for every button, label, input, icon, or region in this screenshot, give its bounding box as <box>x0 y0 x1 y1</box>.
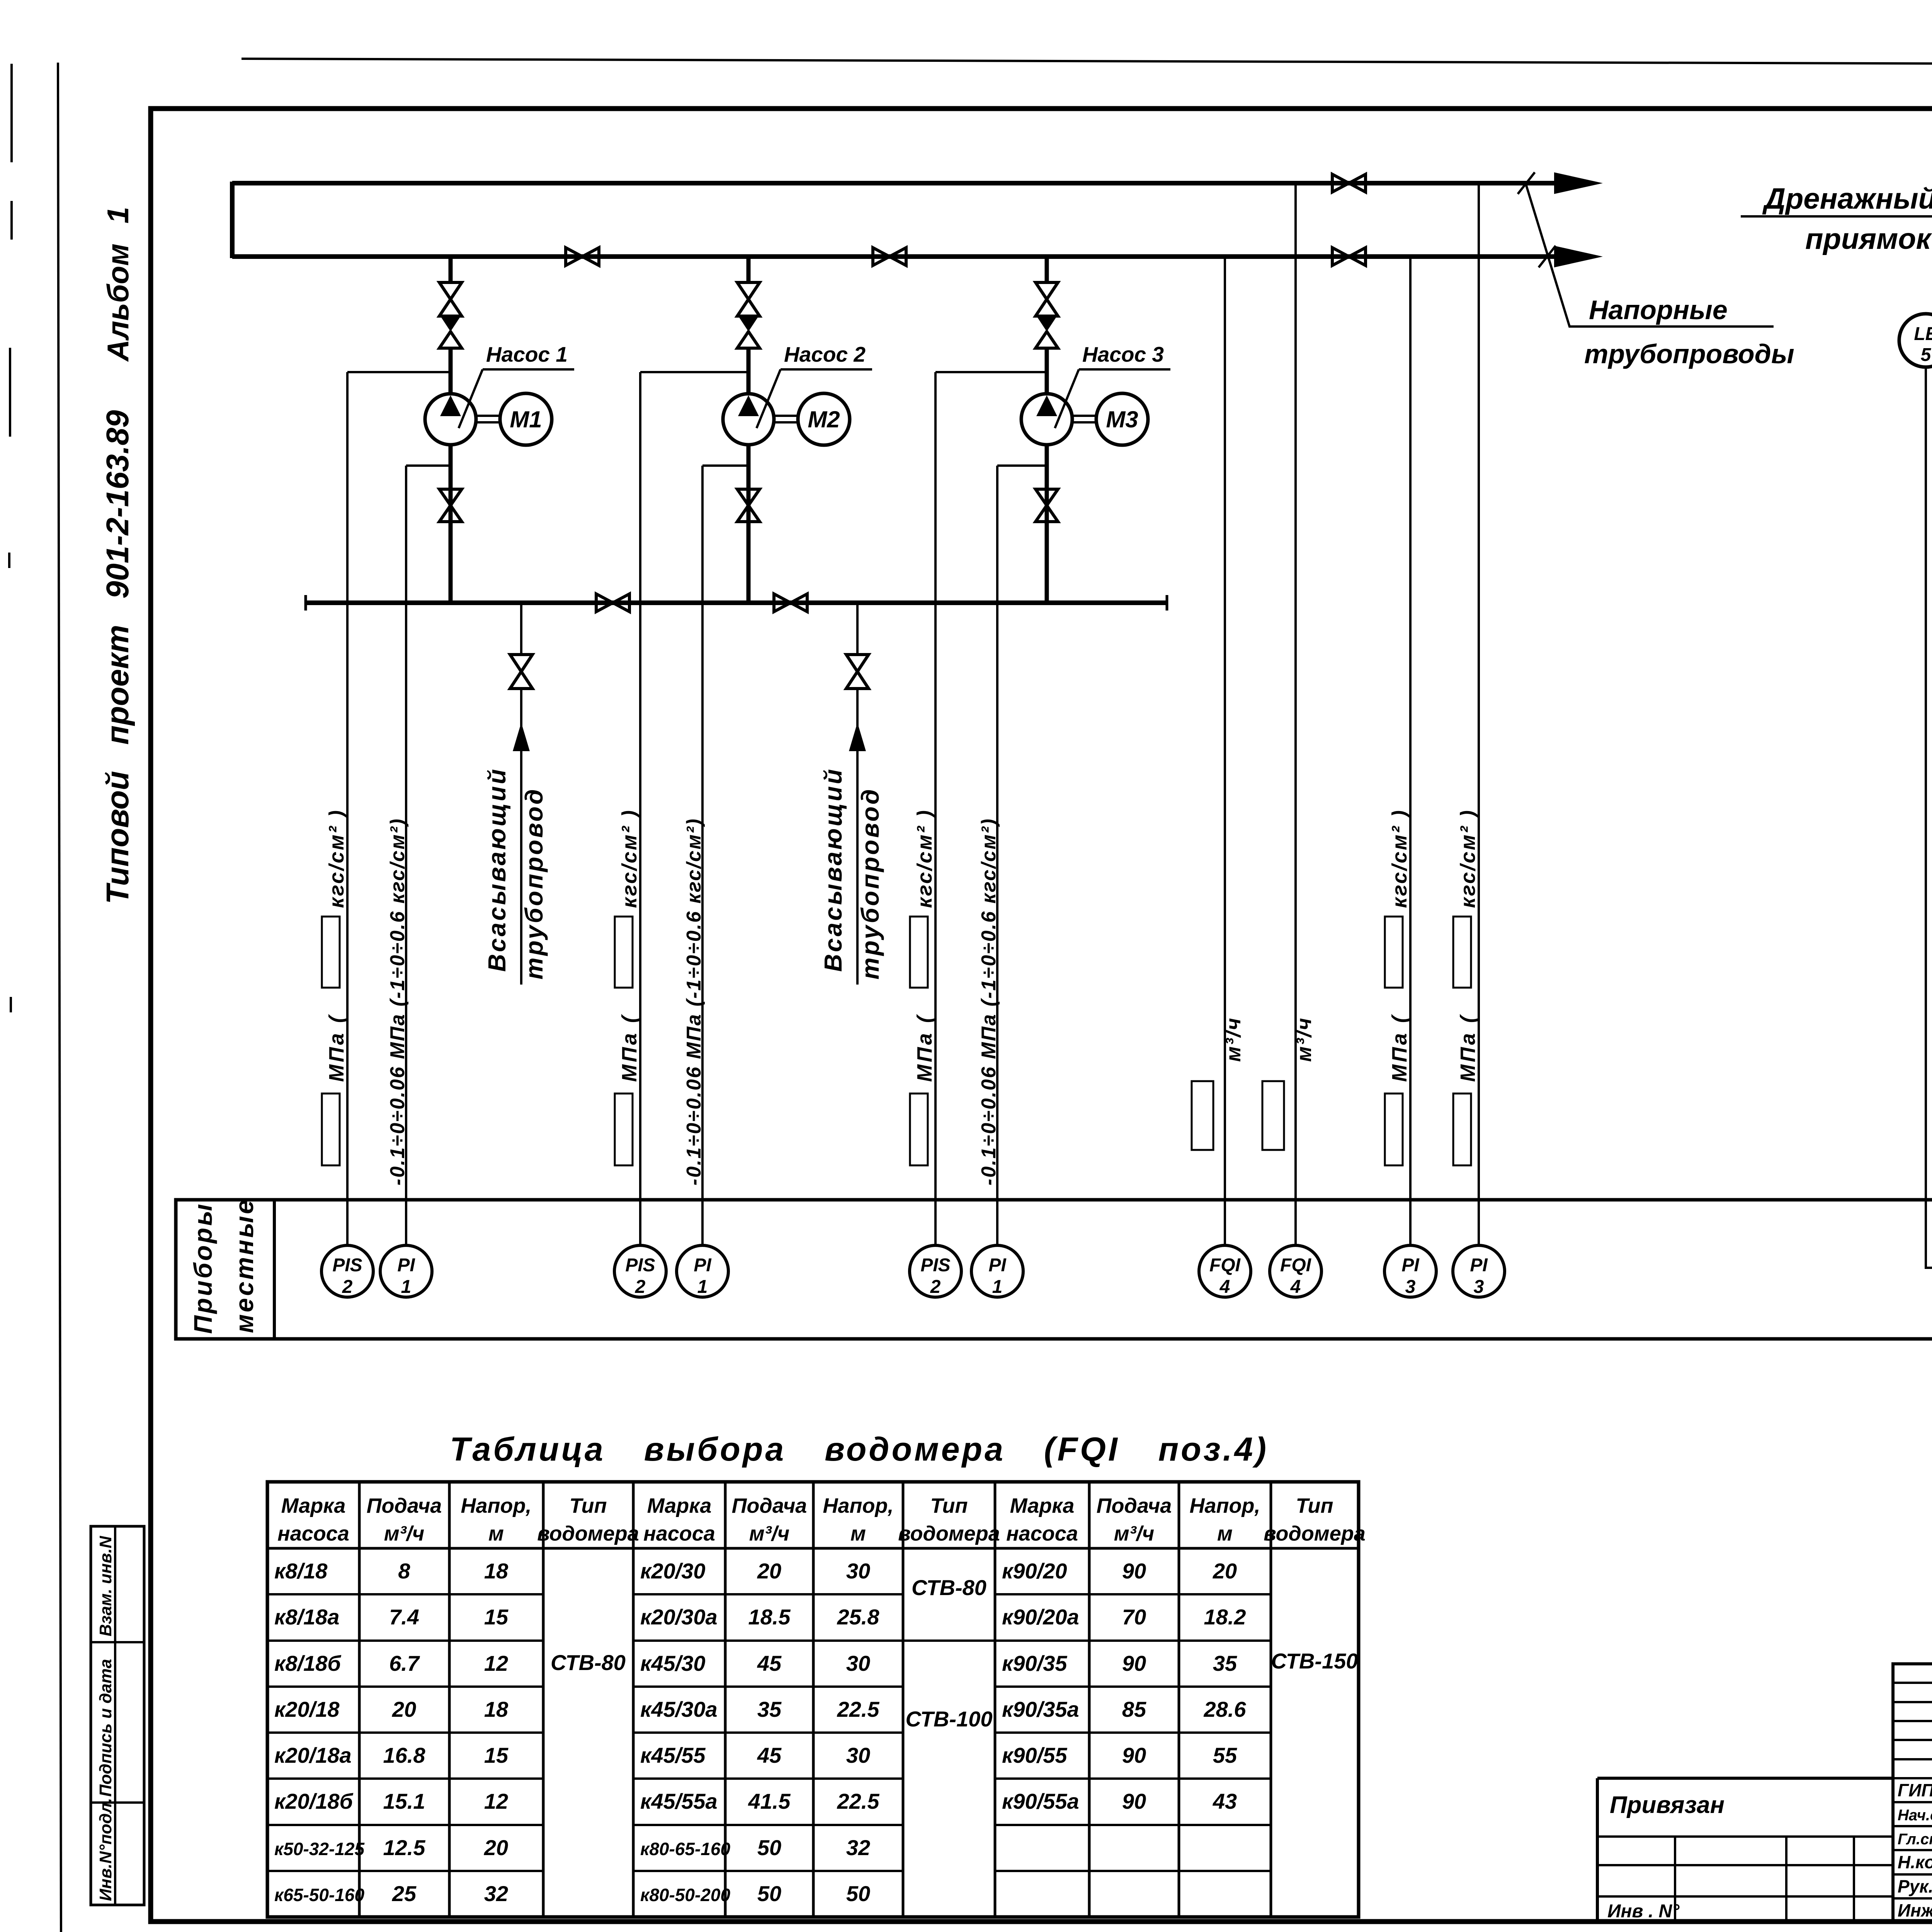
svg-text:СТВ-100: СТВ-100 <box>905 1707 992 1731</box>
gate valve on pump 3 discharge <box>1036 282 1058 316</box>
svg-text:ГИП: ГИП <box>1898 1780 1932 1800</box>
svg-text:к20/18б: к20/18б <box>274 1789 354 1813</box>
table row lines <box>267 1594 1271 1871</box>
suction pressure tap pump 2 <box>702 464 748 467</box>
svg-text:12: 12 <box>484 1789 508 1813</box>
svg-text:5: 5 <box>1921 345 1932 365</box>
line to FQI lower pipe <box>1224 257 1226 1246</box>
svg-text:СТВ-80: СТВ-80 <box>551 1650 626 1675</box>
instrument FQI-4 at x=3170 <box>1199 1245 1251 1297</box>
svg-text:32: 32 <box>484 1881 508 1906</box>
left margin stamp boxes <box>91 1526 144 1905</box>
pump 1 riser from lower pipe <box>449 257 453 282</box>
svg-text:м: м <box>1217 1522 1233 1545</box>
svg-text:Всасывающий: Всасывающий <box>819 767 847 972</box>
valve on upper pipe right section <box>1332 174 1366 192</box>
svg-text:Таблица выбора водомера: Таблица выбора водомера (FQI поз.4) <box>450 1431 1269 1468</box>
svg-text:12.5: 12.5 <box>383 1835 426 1860</box>
svg-text:4: 4 <box>1219 1277 1230 1297</box>
scale plate upper PIS2-1 <box>322 917 340 988</box>
svg-text:18: 18 <box>484 1559 509 1583</box>
svg-text:PIS: PIS <box>920 1255 950 1276</box>
svg-text:Марка: Марка <box>647 1494 712 1517</box>
svg-text:90: 90 <box>1122 1789 1146 1813</box>
label underline Насос 2 <box>781 368 872 371</box>
svg-text:трубопроводы: трубопроводы <box>1584 339 1794 369</box>
left fold dash-dot marks <box>9 64 12 1012</box>
svg-text:22.5: 22.5 <box>837 1789 880 1813</box>
svg-text:FQI: FQI <box>1280 1255 1312 1276</box>
svg-text:Подпись и дата: Подпись и дата <box>96 1659 115 1797</box>
label underline Насос 1 <box>483 368 574 371</box>
instrument PI-3 at x=3650 <box>1384 1245 1436 1297</box>
svg-text:-0.1÷0÷0.06 МПа (-1÷0÷0.6 кгс/: -0.1÷0÷0.06 МПа (-1÷0÷0.6 кгс/см²) <box>978 818 1000 1185</box>
svg-text:50: 50 <box>846 1881 870 1906</box>
svg-text:СТВ-150: СТВ-150 <box>1271 1649 1358 1673</box>
scale plate FQI-2 <box>1262 1081 1284 1150</box>
pump 2 suction stem <box>747 445 751 603</box>
discharge pressure tap pump 2 <box>640 371 748 373</box>
svg-text:Напор,: Напор, <box>461 1494 532 1517</box>
svg-text:30: 30 <box>846 1651 870 1675</box>
svg-text:Тип: Тип <box>1296 1494 1333 1517</box>
table outer border <box>267 1482 1359 1917</box>
pump 2 circle <box>723 394 774 445</box>
svg-text:к90/35а: к90/35а <box>1002 1697 1079 1721</box>
svg-text:МПа (: МПа ( <box>1456 1014 1480 1082</box>
valve on suction manifold left <box>596 594 629 612</box>
svg-text:Рук.гр.: Рук.гр. <box>1898 1876 1932 1896</box>
svg-text:к90/20а: к90/20а <box>1002 1605 1079 1629</box>
svg-text:к90/35: к90/35 <box>1002 1651 1067 1675</box>
pump 2 flow triangle <box>738 395 759 416</box>
svg-text:18.5: 18.5 <box>748 1605 791 1629</box>
leader Насос 2 <box>757 369 781 428</box>
gate valve on pump 2 suction <box>737 489 760 522</box>
instruments strip box <box>176 1200 1932 1339</box>
svg-text:2: 2 <box>342 1277 353 1297</box>
pump 3 shaft coupling <box>1071 416 1096 422</box>
gate valve on pump 1 discharge <box>439 282 462 316</box>
motor M2 circle <box>798 393 850 445</box>
line to PIS2 pump3 <box>934 372 937 1246</box>
svg-text:55: 55 <box>1213 1743 1237 1767</box>
svg-text:м: м <box>488 1522 504 1545</box>
gate valve on pump 1 suction <box>439 489 462 522</box>
table column lines <box>359 1482 1271 1917</box>
pump 3 flow triangle <box>1036 395 1057 416</box>
svg-text:Дренажный: Дренажный <box>1762 182 1932 215</box>
svg-text:к90/55а: к90/55а <box>1002 1789 1079 1813</box>
check valve on pump 3 discharge (filled half) <box>1036 315 1058 332</box>
svg-text:насоса: насоса <box>1006 1522 1078 1545</box>
instruments strip label cell divider <box>273 1200 276 1339</box>
svg-text:PIS: PIS <box>332 1255 362 1276</box>
svg-text:Взам. инв.N: Взам. инв.N <box>96 1536 115 1636</box>
svg-text:30: 30 <box>846 1559 870 1583</box>
suction inlet arrow 2 <box>849 723 866 751</box>
check valve on pump 2 discharge (filled half) <box>737 315 760 332</box>
svg-text:LE: LE <box>1914 324 1932 344</box>
svg-text:Подача: Подача <box>732 1494 807 1517</box>
svg-text:-0.1÷0÷0.06 МПа (-1÷0÷0.6 кгс/: -0.1÷0÷0.06 МПа (-1÷0÷0.6 кгс/см²) <box>683 818 705 1185</box>
instrument PI-1 at x=1819 <box>677 1245 728 1297</box>
svg-text:-0.1÷0÷0.06 МПа (-1÷0÷0.6 кгс/: -0.1÷0÷0.06 МПа (-1÷0÷0.6 кгс/см²) <box>386 818 409 1185</box>
svg-text:Н.контр: Н.контр <box>1898 1852 1932 1872</box>
scale plate upper PI3-2 <box>1453 917 1471 988</box>
svg-text:Тип: Тип <box>930 1494 968 1517</box>
valve on suction manifold right <box>774 594 807 612</box>
scale plate lower PI3-2 <box>1453 1094 1471 1165</box>
svg-text:кгс/см² ): кгс/см² ) <box>325 809 348 908</box>
svg-text:3: 3 <box>1474 1277 1484 1297</box>
svg-text:м: м <box>850 1522 866 1545</box>
svg-text:Подача: Подача <box>1097 1494 1172 1517</box>
pump 3 riser from lower pipe <box>1045 257 1049 282</box>
svg-text:20: 20 <box>757 1559 781 1583</box>
line to PI1 pump1 <box>405 466 407 1246</box>
svg-text:к8/18: к8/18 <box>274 1559 328 1583</box>
valve on lower pipe right section <box>1332 248 1366 265</box>
svg-text:к8/18а: к8/18а <box>274 1605 340 1629</box>
suction pressure tap pump 3 <box>997 464 1047 467</box>
svg-text:18.2: 18.2 <box>1204 1605 1246 1629</box>
svg-text:местные: местные <box>230 1198 259 1333</box>
svg-text:85: 85 <box>1122 1697 1146 1721</box>
arrowhead lower pipe <box>1554 246 1603 267</box>
svg-text:СТВ-80: СТВ-80 <box>912 1575 986 1600</box>
svg-text:МПа (: МПа ( <box>325 1014 348 1082</box>
svg-text:М3: М3 <box>1106 406 1138 432</box>
svg-text:Напор,: Напор, <box>1190 1494 1260 1517</box>
svg-text:водомера: водомера <box>1264 1522 1366 1545</box>
svg-text:к20/18: к20/18 <box>274 1697 340 1721</box>
check valve on pump 1 discharge (filled half) <box>439 315 462 332</box>
level sensor LE5 circle <box>1899 314 1932 367</box>
svg-text:Напор,: Напор, <box>823 1494 894 1517</box>
svg-text:PI: PI <box>1401 1255 1420 1276</box>
left block columns <box>1675 1837 1854 1922</box>
svg-text:Инв . N°: Инв . N° <box>1607 1901 1680 1922</box>
svg-text:М2: М2 <box>808 406 840 432</box>
svg-text:МПа (: МПа ( <box>1388 1014 1411 1082</box>
scale plate upper PIS2-2 <box>615 917 633 988</box>
svg-text:к8/18б: к8/18б <box>274 1651 341 1675</box>
scale plate lower PIS2-1 <box>322 1094 340 1165</box>
svg-text:15.1: 15.1 <box>383 1789 425 1813</box>
svg-text:к90/20: к90/20 <box>1002 1559 1067 1583</box>
svg-text:18: 18 <box>484 1697 509 1721</box>
svg-text:Напорные: Напорные <box>1589 295 1728 325</box>
leader Насос 1 <box>459 369 483 428</box>
svg-text:PI: PI <box>397 1255 415 1276</box>
svg-text:16.8: 16.8 <box>383 1743 426 1767</box>
svg-text:водомера: водомера <box>537 1522 639 1545</box>
svg-text:20: 20 <box>484 1835 508 1860</box>
svg-text:Гл.спец.: Гл.спец. <box>1898 1831 1932 1848</box>
svg-text:кгс/см² ): кгс/см² ) <box>1456 809 1480 908</box>
stamp divider horizontals <box>91 1642 144 1803</box>
svg-text:25: 25 <box>392 1881 417 1906</box>
suction manifold right end tick <box>1166 595 1168 611</box>
svg-text:35: 35 <box>757 1697 782 1721</box>
pump 2 shaft coupling <box>773 416 798 422</box>
svg-text:трубопровод: трубопровод <box>520 787 548 980</box>
svg-text:35: 35 <box>1213 1651 1237 1675</box>
svg-text:2: 2 <box>930 1277 941 1297</box>
suction pressure tap pump 1 <box>406 464 451 467</box>
svg-text:90: 90 <box>1122 1559 1146 1583</box>
svg-text:к90/55: к90/55 <box>1002 1743 1067 1767</box>
instrument PI-1 at x=2591 <box>971 1245 1023 1297</box>
svg-text:30: 30 <box>846 1743 870 1767</box>
svg-text:Насос 1: Насос 1 <box>486 342 568 366</box>
left sheet edge line <box>58 63 61 1932</box>
svg-text:90: 90 <box>1122 1743 1146 1767</box>
check valve on pump 2 discharge (open half) <box>737 332 760 348</box>
stem check valve to pump 3 <box>1045 348 1049 395</box>
svg-text:32: 32 <box>846 1835 870 1860</box>
svg-text:к20/30а: к20/30а <box>640 1605 718 1629</box>
left end jumper cap <box>230 182 235 258</box>
svg-text:1: 1 <box>992 1277 1003 1297</box>
svg-text:М1: М1 <box>510 406 542 432</box>
signature rows <box>1893 1802 1932 1898</box>
underline Дренажный приямок <box>1741 215 1932 218</box>
stem check valve to pump 2 <box>747 348 751 395</box>
svg-text:трубопровод: трубопровод <box>856 787 884 980</box>
instrument PIS-2 at x=899 <box>321 1245 373 1297</box>
svg-text:м³/ч: м³/ч <box>749 1522 789 1545</box>
svg-text:Типовой проект 901-2-163.89: Типовой проект 901-2-163.89 <box>100 410 135 904</box>
suction inlet arrow 1 <box>513 723 530 751</box>
svg-text:к45/30а: к45/30а <box>640 1697 718 1721</box>
svg-text:Привязан: Привязан <box>1610 1792 1725 1818</box>
check valve on pump 1 discharge (open half) <box>439 332 462 348</box>
svg-text:м³/ч: м³/ч <box>1293 1017 1316 1062</box>
stem check valve to pump 1 <box>449 348 453 395</box>
line to PI1 pump2 <box>701 466 704 1246</box>
svg-text:43: 43 <box>1213 1789 1237 1813</box>
svg-text:3: 3 <box>1405 1277 1416 1297</box>
svg-text:к50-32-125: к50-32-125 <box>274 1839 365 1859</box>
stamp divider vertical <box>114 1526 116 1905</box>
motor M3 circle <box>1096 393 1148 445</box>
leader Насос 3 <box>1055 369 1079 428</box>
svg-text:12: 12 <box>484 1651 508 1675</box>
line to FQI upper pipe <box>1294 183 1297 1246</box>
svg-text:к80-50-200: к80-50-200 <box>640 1885 730 1905</box>
svg-text:PI: PI <box>988 1255 1007 1276</box>
lower pressure pipe <box>232 254 1561 259</box>
gate valve on pump 3 suction <box>1036 489 1058 522</box>
LE5 signal path <box>1926 366 1932 1268</box>
svg-text:кгс/см² ): кгс/см² ) <box>1388 809 1411 908</box>
instrument PIS-2 at x=2442 <box>910 1245 961 1297</box>
svg-text:45: 45 <box>757 1651 782 1675</box>
scale plate lower PIS2-3 <box>910 1094 928 1165</box>
svg-text:50: 50 <box>757 1881 781 1906</box>
svg-text:к20/18а: к20/18а <box>274 1743 352 1767</box>
suction inlet stem 2 <box>856 603 859 655</box>
suction inlet stem 1 <box>520 603 522 655</box>
pump 1 circle <box>425 394 476 445</box>
svg-text:Нач.отд.: Нач.отд. <box>1898 1807 1932 1824</box>
discharge pressure tap pump 1 <box>347 371 451 373</box>
pump 1 shaft coupling <box>475 416 500 422</box>
svg-text:Альбом 1: Альбом 1 <box>101 207 135 362</box>
valve on lower pipe between pump1-2 <box>566 248 599 265</box>
line to PI3 upper pipe <box>1478 183 1480 1246</box>
svg-text:Марка: Марка <box>281 1494 346 1517</box>
svg-text:Инженер: Инженер <box>1898 1900 1932 1920</box>
pump 3 circle <box>1021 394 1072 445</box>
scale plate lower PIS2-2 <box>615 1094 633 1165</box>
svg-text:Инв.N°подл.: Инв.N°подл. <box>96 1798 115 1901</box>
top trim line <box>241 59 1932 66</box>
svg-text:15: 15 <box>484 1743 509 1767</box>
line to PI1 pump3 <box>996 466 998 1246</box>
valve on lower pipe between pump2-3 <box>873 248 906 265</box>
svg-text:к45/30: к45/30 <box>640 1651 706 1675</box>
svg-text:6.7: 6.7 <box>389 1651 420 1675</box>
svg-text:PI: PI <box>1470 1255 1488 1276</box>
svg-text:Насос 2: Насос 2 <box>784 342 866 366</box>
svg-text:к45/55а: к45/55а <box>640 1789 718 1813</box>
svg-text:41.5: 41.5 <box>748 1789 791 1813</box>
svg-text:90: 90 <box>1122 1651 1146 1675</box>
svg-text:15: 15 <box>484 1605 509 1629</box>
svg-text:50: 50 <box>757 1835 781 1860</box>
svg-text:PIS: PIS <box>625 1255 655 1276</box>
line to PIS2 pump2 <box>639 372 641 1246</box>
suction inlet pipe 2 <box>856 689 859 985</box>
svg-text:к45/55: к45/55 <box>640 1743 706 1767</box>
line to PIS2 pump1 <box>346 372 349 1246</box>
tick on upper pipe <box>1518 172 1535 194</box>
svg-text:водомера: водомера <box>898 1522 1000 1545</box>
svg-text:кгс/см² ): кгс/см² ) <box>913 809 936 908</box>
left block frame <box>1597 1778 1893 1922</box>
central column thin rows <box>1893 1683 1932 1778</box>
title block central column frame <box>1893 1664 1932 1922</box>
svg-text:к80-65-160: к80-65-160 <box>640 1839 730 1859</box>
svg-text:1: 1 <box>697 1277 708 1297</box>
svg-text:Тип: Тип <box>570 1494 607 1517</box>
svg-text:1: 1 <box>401 1277 412 1297</box>
svg-text:Насос 3: Насос 3 <box>1082 342 1164 366</box>
suction manifold pipe <box>306 600 1167 605</box>
arrowhead upper pipe <box>1554 172 1603 194</box>
suction inlet valve 1 <box>510 655 532 689</box>
svg-text:м³/ч: м³/ч <box>1222 1017 1245 1062</box>
pump 1 suction stem <box>449 445 453 603</box>
suction inlet pipe 1 <box>520 689 522 985</box>
svg-text:кгс/см² ): кгс/см² ) <box>618 809 641 908</box>
svg-text:МПа (: МПа ( <box>913 1014 936 1082</box>
svg-text:2: 2 <box>635 1277 646 1297</box>
instrument PI-3 at x=3827 <box>1453 1245 1505 1297</box>
svg-text:приямок: приямок <box>1805 223 1932 255</box>
check valve on pump 3 discharge (open half) <box>1036 332 1058 348</box>
pump 1 flow triangle <box>440 395 461 416</box>
svg-text:м³/ч: м³/ч <box>1114 1522 1154 1545</box>
pump 2 riser from lower pipe <box>747 257 751 282</box>
upper pressure pipe <box>232 181 1561 185</box>
svg-text:Всасывающий: Всасывающий <box>483 767 511 972</box>
gate valve on pump 2 discharge <box>737 282 760 316</box>
svg-text:8: 8 <box>398 1559 410 1583</box>
left block rows <box>1597 1837 1893 1896</box>
scale plate upper PIS2-3 <box>910 917 928 988</box>
svg-text:насоса: насоса <box>643 1522 715 1545</box>
svg-text:4: 4 <box>1290 1277 1301 1297</box>
svg-text:70: 70 <box>1122 1605 1146 1629</box>
svg-text:25.8: 25.8 <box>837 1605 880 1629</box>
svg-text:Подача: Подача <box>367 1494 442 1517</box>
motor M1 circle <box>500 393 552 445</box>
svg-text:насоса: насоса <box>277 1522 349 1545</box>
tick on lower pipe <box>1539 246 1556 267</box>
svg-text:7.4: 7.4 <box>389 1605 419 1629</box>
label underline Насос 3 <box>1079 368 1170 371</box>
suction manifold left end tick <box>304 595 307 611</box>
svg-text:м³/ч: м³/ч <box>384 1522 424 1545</box>
instrument FQI-4 at x=3353 <box>1270 1245 1321 1297</box>
instrument PI-1 at x=1048 <box>380 1245 432 1297</box>
svg-text:МПа (: МПа ( <box>618 1014 641 1082</box>
scale plate lower PI3-1 <box>1385 1094 1403 1165</box>
svg-text:22.5: 22.5 <box>837 1697 880 1721</box>
svg-text:PI: PI <box>694 1255 712 1276</box>
divider in group2 type column <box>903 1639 995 1642</box>
pump 3 suction stem <box>1045 445 1049 603</box>
instrument PIS-2 at x=1670 <box>614 1245 666 1297</box>
svg-text:FQI: FQI <box>1209 1255 1241 1276</box>
svg-text:20: 20 <box>392 1697 416 1721</box>
scale plate FQI-1 <box>1192 1081 1213 1150</box>
suction inlet valve 2 <box>846 655 869 689</box>
table header bottom line <box>267 1547 1359 1550</box>
svg-text:к20/30: к20/30 <box>640 1559 706 1583</box>
svg-text:20: 20 <box>1213 1559 1237 1583</box>
svg-text:28.6: 28.6 <box>1204 1697 1247 1721</box>
svg-text:45: 45 <box>757 1743 782 1767</box>
svg-text:Приборы: Приборы <box>189 1202 217 1334</box>
scale plate upper PI3-1 <box>1385 917 1403 988</box>
svg-text:Марка: Марка <box>1010 1494 1075 1517</box>
leader Напорные трубопроводы <box>1526 185 1774 327</box>
discharge pressure tap pump 3 <box>935 371 1047 373</box>
line to PI3 lower pipe <box>1409 257 1412 1246</box>
svg-text:к65-50-160: к65-50-160 <box>274 1885 364 1905</box>
